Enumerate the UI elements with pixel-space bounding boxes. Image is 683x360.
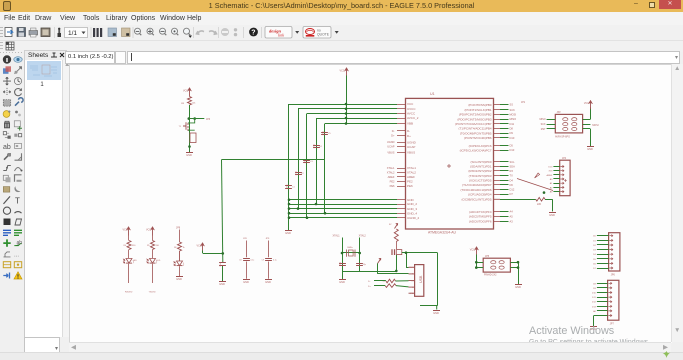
capacitor C12 (polarized) xyxy=(392,249,402,255)
svg-text:VBUS: VBUS xyxy=(407,151,415,155)
node xyxy=(306,216,309,219)
label TX xyxy=(149,292,156,294)
resistor R11 xyxy=(536,198,545,207)
svg-text:SCK: SCK xyxy=(541,123,546,126)
svg-text:GND: GND xyxy=(587,147,593,151)
svg-text:D9: D9 xyxy=(510,131,514,135)
pin pad xyxy=(563,127,568,130)
svg-text:D6: D6 xyxy=(510,183,514,187)
svg-text:): ) xyxy=(183,262,184,266)
resistor R6 xyxy=(179,230,181,243)
pin (RXD1/INT2)PD2 xyxy=(494,170,501,172)
supply symbol VCC (LED TX) xyxy=(146,227,155,236)
wire xyxy=(342,272,344,279)
pin stub xyxy=(397,113,406,115)
svg-text:GND: GND xyxy=(410,293,415,295)
capacitor C5 xyxy=(321,131,331,135)
pin USB D- xyxy=(409,273,415,275)
wire xyxy=(128,250,130,259)
ground (USB shield) xyxy=(433,306,440,315)
node xyxy=(315,203,318,206)
pin pad xyxy=(491,266,496,269)
pin (ICP1/ADC8)PD4 xyxy=(494,194,501,196)
svg-text:D11: D11 xyxy=(592,297,597,299)
svg-text:GND_3: GND_3 xyxy=(407,207,417,211)
svg-text:XTAL1: XTAL1 xyxy=(333,235,341,238)
svg-text:C2: C2 xyxy=(301,173,304,175)
pin (XCK1/CTS)PD5 xyxy=(494,180,501,182)
pin JP4 A3 xyxy=(561,190,564,192)
svg-text:?: ? xyxy=(251,30,255,37)
svg-text:A1: A1 xyxy=(550,182,553,185)
wire decoupling vertical 3 xyxy=(306,114,308,218)
pin (ICP3/CLK0)PC6 xyxy=(494,145,501,147)
pin (SDA/INT1)PD1 xyxy=(494,166,501,168)
svg-text:(SCL/INT0)PD0: (SCL/INT0)PD0 xyxy=(470,160,491,164)
pin pad xyxy=(563,123,568,126)
svg-text:VCC: VCC xyxy=(183,90,188,93)
svg-text:...: ... xyxy=(14,252,19,258)
svg-text:JP1: JP1 xyxy=(521,101,526,104)
svg-text:VCC: VCC xyxy=(407,102,414,106)
wire xyxy=(128,236,130,241)
svg-text:A3: A3 xyxy=(510,219,514,223)
svg-text:330: 330 xyxy=(132,245,136,247)
resistor R10 (box symbol) xyxy=(190,133,196,143)
wire long vertical net xyxy=(222,160,223,262)
wire xyxy=(374,280,386,282)
wire power bus row 3 xyxy=(307,113,397,115)
wire USB right xyxy=(437,253,439,306)
pin (T1/OC4D/ADC9)PD7 xyxy=(494,184,501,186)
svg-text:D+: D+ xyxy=(407,134,411,138)
svg-text:MISO: MISO xyxy=(539,118,545,121)
svg-text:VCC: VCC xyxy=(123,229,128,232)
resistor R13 22 xyxy=(385,284,396,288)
pin JP7 GND xyxy=(608,314,611,316)
pin D- xyxy=(397,130,406,132)
svg-text:AVCC_2: AVCC_2 xyxy=(407,116,419,120)
svg-text:(SDA/INT1)PD1: (SDA/INT1)PD1 xyxy=(470,165,492,169)
ground (C8) xyxy=(243,280,250,284)
svg-text:UGND: UGND xyxy=(387,140,395,144)
svg-text:VBUS: VBUS xyxy=(387,150,394,154)
wire gnd bus row 1 xyxy=(289,199,397,201)
pin stub xyxy=(397,204,406,206)
pin (T0/OC4B/PCINT5)PB5 xyxy=(494,133,501,135)
pin D+ xyxy=(397,135,406,137)
ground (crystal) xyxy=(339,280,346,284)
svg-text:10uF: 10uF xyxy=(220,261,222,266)
ground (R11) xyxy=(549,213,556,217)
pin UCAP xyxy=(397,146,406,148)
resistor R9 xyxy=(181,97,196,106)
pin USB GND xyxy=(409,292,415,294)
resistor R5 xyxy=(147,241,160,250)
wire xyxy=(476,255,478,268)
pin JP6 D2 xyxy=(609,244,612,246)
svg-text:(ADC5/TMS)PF5: (ADC5/TMS)PF5 xyxy=(469,215,492,219)
node xyxy=(517,266,520,269)
ground (ISP) xyxy=(587,147,594,151)
node gnd bus junction 1 xyxy=(288,199,291,202)
pin (PCINT1/SCLK)PB1 xyxy=(494,109,501,111)
svg-text:D9: D9 xyxy=(593,288,597,290)
node xyxy=(543,191,546,194)
connector JP6 xyxy=(609,233,620,277)
svg-text:22p: 22p xyxy=(340,262,342,265)
svg-text:(T1/PCINT4/ADC11)PB4: (T1/PCINT4/ADC11)PB4 xyxy=(459,127,492,131)
pin JP7 D11 xyxy=(608,296,611,298)
svg-text:D11: D11 xyxy=(510,122,515,126)
ground (C7) xyxy=(219,282,226,286)
wire power bus row 4 xyxy=(316,118,397,120)
svg-text:(PCINT6/OC4D)PB6: (PCINT6/OC4D)PB6 xyxy=(464,136,492,140)
svg-text:MOSI: MOSI xyxy=(592,124,598,127)
svg-text:D1: D1 xyxy=(593,240,597,242)
svg-text:D-: D- xyxy=(392,129,395,133)
svg-text:U1: U1 xyxy=(430,92,435,96)
svg-text:UVCC: UVCC xyxy=(407,107,416,111)
wire ISP right xyxy=(583,124,591,126)
wire decoupling vertical 1 xyxy=(288,104,290,230)
node rail junction 1 xyxy=(345,103,348,106)
svg-text:T: T xyxy=(15,196,20,205)
svg-text:D13: D13 xyxy=(592,306,597,308)
pin (ADC5/TMS)PF5 xyxy=(494,216,501,218)
node gnd bus junction 5 xyxy=(288,216,291,219)
node xyxy=(324,212,327,215)
pin stub xyxy=(397,217,406,219)
supply symbol VCC (cap C7) xyxy=(197,243,205,252)
pin stub xyxy=(397,213,406,215)
svg-text:D12: D12 xyxy=(510,188,515,192)
pin VBUS xyxy=(397,152,406,154)
wire xyxy=(396,242,398,250)
wire xyxy=(152,236,154,241)
pin JP6 D5 xyxy=(609,258,612,260)
pin XTAL2 xyxy=(397,172,406,174)
pin JP7 D10 xyxy=(608,291,611,293)
svg-text:RX: RX xyxy=(510,169,514,173)
svg-text:PE6: PE6 xyxy=(407,184,413,188)
wire USB top xyxy=(402,252,438,254)
pin JP4 3V3 xyxy=(561,170,564,172)
svg-text:GND: GND xyxy=(285,231,291,235)
svg-text:0.1u: 0.1u xyxy=(273,260,277,262)
svg-text:MOSI: MOSI xyxy=(510,113,517,117)
node xyxy=(297,207,300,210)
ground (JP7) xyxy=(590,327,597,331)
pin JP4 AREF xyxy=(561,174,564,176)
node gate junction xyxy=(188,117,197,120)
svg-text:VCC: VCC xyxy=(146,229,151,232)
svg-text:VCC: VCC xyxy=(584,102,589,105)
wire VCC rail vertical xyxy=(346,76,348,124)
wire xyxy=(545,199,552,201)
svg-text:D12: D12 xyxy=(592,302,597,304)
svg-text:XTAL2: XTAL2 xyxy=(407,171,416,175)
svg-text:22: 22 xyxy=(383,281,386,283)
pin JP7 D12 xyxy=(608,301,611,303)
svg-text:D0: D0 xyxy=(593,236,597,238)
svg-text:(PCINT7/OC0A/OC1C)PB7: (PCINT7/OC0A/OC1C)PB7 xyxy=(455,122,492,126)
wire ISP MISO xyxy=(547,119,556,121)
pin (PDI/PCINT2/MOSI)PB2 xyxy=(494,114,501,116)
wire to GND xyxy=(590,129,592,147)
svg-text:1k: 1k xyxy=(183,247,185,249)
wire xyxy=(268,262,270,279)
svg-text:(ADC4/TCK)PF4: (ADC4/TCK)PF4 xyxy=(469,210,492,214)
svg-text:SCK: SCK xyxy=(510,108,516,112)
svg-text:RXLED: RXLED xyxy=(125,292,133,294)
svg-text:RST: RST xyxy=(541,128,546,131)
svg-text:22p: 22p xyxy=(363,264,366,266)
capacitor C1 xyxy=(285,185,295,189)
transistor T1 xyxy=(179,119,195,131)
ground (LED3) xyxy=(176,277,183,281)
svg-text:C5: C5 xyxy=(328,133,331,135)
svg-text:AREF: AREF xyxy=(388,175,395,179)
pin USB D+ xyxy=(409,280,415,282)
pin (PCINT0/SS)PB0 xyxy=(494,104,501,106)
svg-text:A4: A4 xyxy=(510,210,514,214)
svg-text:GND: GND xyxy=(433,311,439,315)
label XTAL1 xyxy=(333,235,341,238)
diode LED3 xyxy=(174,251,185,266)
svg-text:16MHz: 16MHz xyxy=(347,247,353,249)
svg-text:(PCINT0/SS)PB0: (PCINT0/SS)PB0 xyxy=(468,103,492,107)
supply symbol VCC (transistor circuit) xyxy=(183,88,192,97)
capacitor C10 xyxy=(339,262,346,266)
svg-text:100n: 100n xyxy=(296,171,298,175)
svg-text:3V3: 3V3 xyxy=(548,171,553,173)
pin JP4 A0 xyxy=(561,178,564,180)
supply symbol VCC (JP5) xyxy=(470,247,479,256)
ground (C9) xyxy=(265,280,272,284)
wire power bus row 2 xyxy=(298,108,397,110)
wire gnd rail xyxy=(342,271,396,273)
wire xyxy=(246,262,248,279)
pin JP7 D8 xyxy=(608,282,611,284)
capacitor C7 xyxy=(219,261,226,266)
pin PD5 wire to R11 xyxy=(494,198,501,200)
node xyxy=(188,145,191,148)
resistor R4 xyxy=(123,241,136,250)
svg-text:LED: LED xyxy=(157,260,161,262)
connector X1 USB xyxy=(415,265,424,297)
svg-text:R6: R6 xyxy=(174,247,177,249)
svg-text:SS: SS xyxy=(510,103,514,107)
svg-text:JP4: JP4 xyxy=(562,157,567,160)
svg-text:(T1/OC4D/ADC9)PD7: (T1/OC4D/ADC9)PD7 xyxy=(462,183,492,187)
node rail junction 2 xyxy=(345,108,348,111)
svg-text:VCC: VCC xyxy=(470,249,475,252)
svg-text:PE2: PE2 xyxy=(390,179,395,183)
svg-text:D7: D7 xyxy=(510,192,514,196)
pin JP6 D4 xyxy=(609,253,612,255)
svg-text:1/1: 1/1 xyxy=(68,30,77,37)
svg-text:(RXD1/INT2)PD2: (RXD1/INT2)PD2 xyxy=(468,169,492,173)
node xyxy=(358,252,361,255)
svg-text:100n: 100n xyxy=(314,144,316,148)
svg-text:(PDO/PCINT3/MISO)PB3: (PDO/PCINT3/MISO)PB3 xyxy=(457,117,492,121)
pin (T1/PCINT4/ADC11)PB4 xyxy=(494,128,501,130)
svg-text:(ICP3/CLK0/OC4A)PC7: (ICP3/CLK0/OC4A)PC7 xyxy=(460,148,492,152)
pin (PCINT7/OC0A/OC1C)PB7 xyxy=(494,123,501,125)
node xyxy=(517,261,520,264)
wire xyxy=(374,285,385,287)
svg-text:D3: D3 xyxy=(593,250,597,252)
pin JP6 D1 xyxy=(609,239,612,241)
label flag xyxy=(535,173,540,178)
capacitor C4 xyxy=(313,144,322,148)
pin stub xyxy=(397,208,406,210)
wire ISP RST xyxy=(547,128,556,130)
svg-text:UCAP: UCAP xyxy=(407,145,415,149)
wire xyxy=(190,118,205,120)
svg-text:A0: A0 xyxy=(593,310,596,313)
svg-text:JP6: JP6 xyxy=(611,274,616,277)
node xyxy=(475,261,478,264)
pin USB VBUS xyxy=(409,266,415,268)
pin JP7 D13 xyxy=(608,305,611,307)
wire ISP right xyxy=(583,128,591,130)
svg-text:GND_2: GND_2 xyxy=(407,202,417,206)
wire ISP SCK xyxy=(547,124,556,126)
pin USB ID xyxy=(409,286,415,288)
svg-text:PE6: PE6 xyxy=(390,184,395,188)
pin pad xyxy=(572,127,577,130)
pin stub xyxy=(397,199,406,201)
svg-text:(ADC6/TDO)PF6: (ADC6/TDO)PF6 xyxy=(469,220,492,224)
wire gnd bus row 4 xyxy=(289,213,397,215)
svg-text:AVR-ISP-6PG: AVR-ISP-6PG xyxy=(555,135,570,138)
svg-text:D2: D2 xyxy=(593,245,597,247)
pin JP6 D6 xyxy=(609,262,612,264)
svg-text:C1: C1 xyxy=(292,187,295,189)
wire decoupling vertical 5 xyxy=(324,124,326,214)
label D- xyxy=(368,281,371,283)
pin pad xyxy=(572,118,577,121)
svg-text:UCAP: UCAP xyxy=(387,145,394,149)
wire power bus row 1 xyxy=(289,104,397,106)
label JP3 xyxy=(206,118,211,121)
svg-text:LED: LED xyxy=(133,260,137,262)
wire long horizontal net xyxy=(222,159,326,161)
svg-text:VBB: VBB xyxy=(407,122,413,126)
svg-text:(TXD1/INT3)PD3: (TXD1/INT3)PD3 xyxy=(469,174,492,178)
svg-text:D6: D6 xyxy=(593,263,597,265)
label MOSI xyxy=(592,124,598,127)
pin JP7 A0 xyxy=(608,310,611,312)
svg-text:(PDI/PCINT2/MOSI)PB2: (PDI/PCINT2/MOSI)PB2 xyxy=(459,113,492,117)
pin (TXD1/INT3)PD3 xyxy=(494,175,501,177)
svg-text:UGND_2: UGND_2 xyxy=(407,216,420,220)
svg-text:C3: C3 xyxy=(310,161,313,163)
supply symbol VCC (LED RX) xyxy=(123,227,131,236)
wire xyxy=(377,263,379,274)
pin PE2 xyxy=(397,181,406,183)
svg-text:GND: GND xyxy=(219,282,225,286)
IC center cross xyxy=(447,164,451,168)
pin pad xyxy=(499,266,504,269)
wire xyxy=(152,264,154,283)
wire decoupling vertical 2 xyxy=(298,109,300,209)
svg-text:SDA: SDA xyxy=(510,164,516,168)
svg-text:C9: C9 xyxy=(262,260,264,262)
ground (decoupling rail) xyxy=(285,231,292,235)
svg-text:D+: D+ xyxy=(411,280,413,282)
svg-text:USB: USB xyxy=(419,275,423,283)
svg-text:ab: ab xyxy=(3,144,11,151)
wire xyxy=(510,262,518,264)
wire xyxy=(189,105,191,153)
svg-text:JP2: JP2 xyxy=(557,111,562,114)
pin JP7 D9 xyxy=(608,287,611,289)
svg-text:(ICP3/CLK0)PC6: (ICP3/CLK0)PC6 xyxy=(469,144,492,148)
pin UGND xyxy=(397,142,406,144)
pin (PDO/PCINT3/MISO)PB3 xyxy=(494,119,501,121)
svg-text:10k: 10k xyxy=(192,103,196,105)
pin (ICP3/CLK0/OC4A)PC7 xyxy=(494,150,501,152)
resistor F1 xyxy=(394,229,398,242)
node xyxy=(405,251,408,254)
op-amp U1 ATMEGA32U4 box xyxy=(406,92,494,235)
connector JP7 xyxy=(608,280,619,325)
connector JP4 xyxy=(560,157,570,196)
wire xyxy=(342,238,344,272)
svg-text:TXLED: TXLED xyxy=(149,292,156,294)
pin pad xyxy=(572,123,577,126)
supply symbol VCC (ISP) xyxy=(584,100,593,109)
svg-text:AVCC: AVCC xyxy=(407,112,416,116)
svg-text:GND: GND xyxy=(549,213,555,217)
svg-text:D4: D4 xyxy=(510,178,514,182)
pin (T0/OC4D/ADC10)PD6 xyxy=(494,189,501,191)
node rail junction 5 xyxy=(345,122,348,125)
pin XTAL1 xyxy=(397,168,406,170)
wire ISP right xyxy=(583,119,591,121)
wire gnd bus row 5 xyxy=(289,217,397,219)
svg-text:MISO: MISO xyxy=(510,117,517,121)
pin AREF xyxy=(397,176,406,178)
svg-text:D10: D10 xyxy=(510,136,515,140)
supply arrow VBUS xyxy=(378,258,382,263)
diode LED2 xyxy=(147,259,161,264)
supply symbol VCC (rail) xyxy=(340,68,349,77)
pin JP4 A1 xyxy=(561,182,564,184)
svg-text:GND: GND xyxy=(339,280,345,284)
svg-text:(T0/OC4D/ADC10)PD6: (T0/OC4D/ADC10)PD6 xyxy=(460,188,491,192)
svg-text:D5: D5 xyxy=(593,259,597,261)
svg-text:A5: A5 xyxy=(510,214,514,218)
pin JP6 D3 xyxy=(609,248,612,250)
capacitor C2 xyxy=(295,171,304,175)
label C8 xyxy=(243,238,248,240)
node rail junction 3 xyxy=(345,112,348,115)
label RX xyxy=(125,292,133,294)
svg-text:D8: D8 xyxy=(593,283,597,285)
svg-text:(ICP1/ADC8)PD4: (ICP1/ADC8)PD4 xyxy=(468,192,492,196)
pin stub xyxy=(397,123,406,125)
pin stub xyxy=(397,108,406,110)
wire diagonal label pointer xyxy=(517,179,553,191)
svg-text:GND: GND xyxy=(265,280,271,284)
svg-text:D-: D- xyxy=(368,281,371,283)
svg-text:A0: A0 xyxy=(550,178,553,181)
svg-text:JP8: JP8 xyxy=(243,238,248,240)
